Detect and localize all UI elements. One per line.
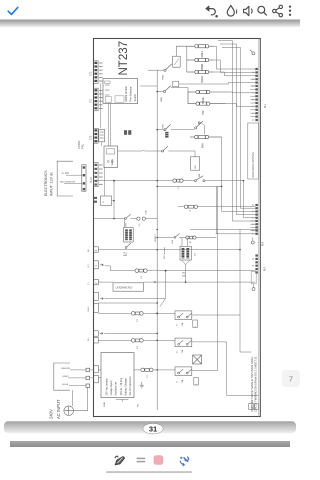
brace below notes box — [116, 399, 128, 401]
wire relay 3 output — [192, 186, 218, 370]
wire riser x240 — [239, 229, 241, 315]
svg-text:RED: RED — [162, 74, 164, 79]
svg-text:CNTRL: CNTRL — [77, 140, 81, 149]
svg-text:Switch: Switch — [134, 94, 137, 102]
wire element E with fuse — [178, 206, 256, 208]
wire mains live with fuse F5 — [98, 369, 175, 371]
svg-text:LATCHING RLY: LATCHING RLY — [116, 287, 133, 290]
heater element fan oven — [190, 135, 222, 138]
svg-text:GRILL: GRILL — [88, 305, 90, 312]
capacitor pair blocks — [124, 130, 127, 135]
svg-text:180: 180 — [182, 273, 185, 275]
switch below RL1 — [125, 247, 127, 249]
connector CT4 pins on border — [94, 163, 99, 187]
wire main bus vertical — [156, 70, 158, 410]
wire riser x120 — [113, 181, 115, 219]
fuse F1 — [173, 179, 183, 182]
wire loom to PL1 — [179, 41, 256, 234]
rectifier box — [101, 196, 112, 205]
wire preselector to trans pair — [108, 104, 110, 147]
wire bus row B — [216, 233, 256, 235]
toolbar speaker icon — [244, 6, 253, 15]
relay RL1 striped — [124, 228, 134, 242]
switch S1 grill selector — [164, 69, 166, 71]
bottom toolbar lines icon — [137, 458, 146, 461]
motor fan symbol — [193, 355, 202, 364]
earth symbol by notes box — [140, 382, 144, 388]
wire CT2 to trans — [101, 142, 103, 146]
terminal 2 on border — [94, 279, 99, 284]
svg-text:BROWN: BROWN — [62, 368, 71, 370]
bottom toolbar pink icon — [154, 455, 164, 465]
svg-text:NT237: NT237 — [118, 41, 130, 76]
svg-text:12V dc - 28 Img: 12V dc - 28 Img — [120, 377, 123, 395]
svg-text:BASE: BASE — [202, 97, 205, 104]
latching relay box — [113, 283, 143, 291]
toolbar undo icon — [206, 6, 218, 18]
wire TOC to heater row — [176, 46, 186, 56]
wire RL return with fuse F4 — [98, 339, 175, 341]
connector CT2 on left border with 12V box — [94, 128, 105, 143]
connector PL13 electronics input bracket — [57, 161, 73, 196]
fuse F3 — [131, 312, 143, 316]
arrow out terminal 1 — [100, 264, 103, 266]
svg-text:TOP: TOP — [203, 110, 205, 115]
svg-text:12V (mauve): 12V (mauve) — [164, 247, 166, 259]
svg-text:FAN: FAN — [202, 143, 205, 148]
svg-text:CT1: CT1 — [90, 98, 92, 103]
wire +12V to PL13 — [66, 174, 82, 176]
svg-text:L: L — [196, 384, 198, 385]
drawing number box — [249, 404, 254, 410]
junction dots — [113, 91, 244, 371]
connector AC input bracket — [54, 363, 70, 390]
wire top row feed — [148, 69, 164, 71]
svg-text:voltage input): voltage input) — [110, 380, 113, 395]
pin labels CT1 — [99, 90, 103, 108]
svg-text:SW: SW — [199, 174, 201, 177]
aux box 3 — [194, 378, 199, 385]
svg-text:6.3A: 6.3A — [144, 210, 147, 215]
switch S2 oven selector — [157, 91, 163, 93]
svg-text:PL4: PL4 — [263, 241, 265, 246]
wire RL2 coil feed — [157, 238, 216, 247]
control unit box — [248, 123, 259, 179]
svg-text:FAN: FAN — [123, 254, 127, 257]
svg-text:CLK: CLK — [195, 164, 197, 169]
svg-text:INNER: INNER — [202, 64, 204, 71]
terminal pair grill on border — [94, 292, 99, 300]
terminal block AC — [86, 368, 90, 371]
wire BROWN live — [70, 369, 86, 371]
svg-text:INPUT 12V dc: INPUT 12V dc — [50, 172, 54, 196]
svg-text:OVEN: OVEN — [202, 76, 204, 83]
heater element top browning — [188, 92, 226, 105]
wire S2 to heater row 2 — [171, 88, 188, 92]
connector PL1 pins — [255, 68, 258, 121]
relay switch unit 3 — [175, 367, 192, 376]
svg-text:YELLOW/SLOW: YELLOW/SLOW — [60, 182, 75, 184]
wire preselector to bus — [140, 85, 157, 87]
wire GREY neutral — [68, 377, 86, 379]
connector CT1 on left border — [94, 88, 99, 111]
connector pins rectifier — [94, 197, 97, 199]
svg-text:A 12V: A 12V — [62, 172, 69, 175]
wire relay 2 output — [192, 342, 259, 396]
wire earth drop — [73, 387, 88, 410]
fuse F2 — [135, 269, 147, 273]
bottom page edge band — [4, 421, 296, 433]
notes box mains spec — [101, 353, 134, 398]
svg-text:BRN: BRN — [161, 96, 163, 101]
toolbar search icon — [258, 6, 267, 15]
svg-text:230 Vac (mains: 230 Vac (mains — [106, 378, 109, 396]
wire trans secondary with hop — [118, 149, 162, 152]
wire bus row A — [190, 228, 258, 230]
terminal ring top right — [252, 52, 255, 55]
page top shadow band — [0, 20, 300, 28]
connector CT3 on left border — [94, 61, 99, 84]
wire neutral rail — [157, 185, 221, 187]
wire regulator row — [157, 129, 164, 131]
fuse E — [184, 205, 197, 208]
wire fan oven riser — [221, 137, 223, 186]
wire rectifier out — [112, 200, 115, 202]
page scrubber 7 — [282, 370, 300, 387]
schematic outer frame — [94, 39, 261, 417]
bottom toolbar blue icon — [180, 457, 188, 466]
switch oven regulator — [164, 129, 166, 131]
terminal 4 on border — [94, 247, 99, 252]
svg-text:Auxiliary fan: Auxiliary fan — [114, 381, 117, 395]
page number oval 31 — [143, 423, 163, 434]
wire grill return with fuse F3 — [98, 312, 175, 314]
svg-text:240V: 240V — [49, 409, 54, 419]
svg-text:31: 31 — [149, 424, 157, 433]
svg-text:AC INPUT: AC INPUT — [56, 399, 61, 419]
pre-selector unit box — [103, 79, 138, 104]
wire RL2 secondary merge — [181, 260, 190, 282]
relay switch unit 1 — [175, 311, 192, 320]
svg-text:BLUE: BLUE — [63, 384, 69, 386]
wire trans to rectifier — [104, 168, 106, 197]
svg-text:GREY: GREY — [63, 376, 70, 378]
transformer RL2 striped — [180, 246, 191, 260]
bracket by PL5 — [251, 271, 256, 284]
terminal ring mid right — [251, 241, 254, 244]
connector PL4 pins — [255, 204, 258, 235]
svg-text:GRILL: GRILL — [202, 50, 204, 57]
svg-text:MAIN OVEN CONTROL: MAIN OVEN CONTROL — [252, 151, 255, 177]
connector PL5 pins — [255, 254, 258, 273]
next page band — [10, 441, 290, 447]
transformer box TRANS — [104, 146, 118, 168]
bottom toolbar pen icon — [115, 456, 125, 465]
wire heater feed bus — [186, 46, 188, 72]
fuse F6 — [186, 236, 196, 239]
thermal fuse striped — [165, 132, 168, 138]
inner right border line — [257, 39, 259, 417]
terminal ring lower right — [252, 288, 255, 291]
pin labels CT3 — [99, 63, 103, 81]
svg-text:L: L — [195, 325, 197, 326]
wire relay 1 output — [192, 315, 252, 352]
svg-text:7: 7 — [289, 377, 293, 384]
svg-text:PL5: PL5 — [264, 266, 266, 271]
fuse 6.3A — [137, 217, 140, 220]
terminal 1 on border — [94, 261, 99, 269]
terminal pair mains on border — [94, 365, 99, 372]
fuse F5 — [141, 368, 153, 372]
connector PL13 — [82, 165, 86, 191]
heater element base oven — [188, 90, 230, 93]
heater element grill outer — [187, 45, 214, 48]
wire stubs PL1 lower pins — [250, 79, 255, 116]
switch relay contact — [162, 150, 164, 152]
svg-text:Pre-Selector: Pre-Selector — [129, 86, 133, 101]
toolbar ink droplet icon — [227, 6, 236, 16]
switch fan — [125, 218, 127, 220]
wire oven fan feed — [94, 219, 158, 228]
heater element top oven — [187, 70, 214, 73]
svg-text:PL1: PL1 — [265, 103, 267, 108]
thermostat box S2 — [173, 81, 179, 87]
svg-text:TRANS: TRANS — [111, 158, 114, 166]
wire grill feed — [105, 298, 166, 300]
wire terminal 2 rail — [98, 281, 113, 283]
svg-text:PL13: PL13 — [90, 177, 93, 183]
svg-text:CT3: CT3 — [90, 71, 92, 76]
switch selector mid — [195, 127, 197, 129]
svg-text:CT2: CT2 — [90, 135, 92, 140]
svg-text:ELECTRONICS: ELECTRONICS — [44, 170, 48, 196]
switch door interlock — [194, 180, 196, 182]
wire live rail — [97, 180, 243, 182]
wire feeds PL4 pins — [222, 181, 256, 231]
switch RL2 — [174, 236, 176, 238]
svg-text:GNB: GNB — [104, 402, 106, 407]
toolbar overflow menu icon — [289, 5, 291, 16]
wire terminal 4 rail — [98, 249, 240, 251]
svg-text:REG: REG — [162, 124, 164, 129]
wire 0V to PL13 — [64, 182, 82, 184]
svg-text:MAIN OVEN: MAIN OVEN — [124, 86, 128, 101]
terminal pair RL on border — [94, 331, 99, 336]
svg-text:Sel-Pol Selection: Sel-Pol Selection — [129, 376, 132, 396]
wire mains neutral — [98, 377, 101, 379]
wire terminals to frame — [90, 369, 94, 371]
relay switch unit 2 — [175, 338, 192, 347]
earth plug symbol — [64, 406, 74, 416]
thermal cutout TOC — [173, 56, 181, 67]
wire RL feed — [104, 332, 157, 334]
heater element grill inner — [187, 58, 214, 61]
toolbar underline — [106, 471, 192, 473]
svg-text:PNL: PNL — [81, 143, 85, 149]
wire BLUE — [69, 385, 86, 387]
wire terminal 1 rail with fuse F2 — [105, 266, 256, 299]
toolbar share icon — [273, 5, 283, 17]
wire CT3 to CT2 bus — [100, 83, 102, 128]
timer box — [191, 157, 200, 170]
svg-text:R06: R06 — [182, 275, 185, 277]
svg-text:Battery Charger: Battery Charger — [125, 378, 128, 396]
aux box 1 — [193, 320, 198, 327]
fuse F4 — [131, 339, 143, 343]
toolbar check (done) icon — [8, 7, 18, 14]
